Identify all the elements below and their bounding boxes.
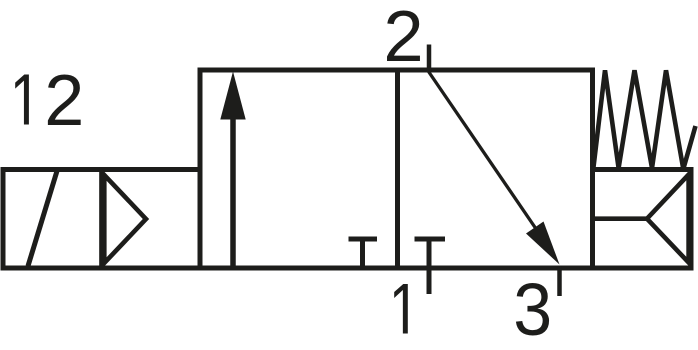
valve body left chamber — [200, 70, 398, 268]
flow path 2 to 3 (arrowhead) — [526, 222, 560, 265]
port 2 stub — [427, 45, 432, 73]
svg-text:3: 3 — [513, 269, 552, 350]
svg-text:2: 2 — [383, 0, 423, 77]
return spring — [594, 70, 696, 169]
pilot triangle box — [102, 170, 200, 269]
air pilot return triangle — [647, 175, 689, 263]
solenoid diagonal stroke — [28, 171, 57, 266]
solenoid box Y1 — [3, 170, 102, 269]
svg-text:2: 2 — [44, 61, 84, 141]
flow path 2 to 3 (line) — [429, 72, 546, 243]
pilot triangle — [104, 175, 146, 263]
port 3 stub — [557, 266, 562, 296]
label 1 — [394, 284, 408, 334]
blocked port T / port 1 stub — [427, 238, 432, 294]
blocked port T (left chamber) — [360, 238, 365, 266]
valve body right chamber — [398, 70, 593, 268]
flow arrow 1 to 2 (head) — [220, 72, 245, 120]
flow arrow 1 to 2 (shaft) — [230, 117, 236, 266]
air pilot return box — [593, 170, 692, 269]
label 12 (digit 1) — [15, 74, 29, 124]
pilot line to triangle apex — [594, 216, 647, 221]
